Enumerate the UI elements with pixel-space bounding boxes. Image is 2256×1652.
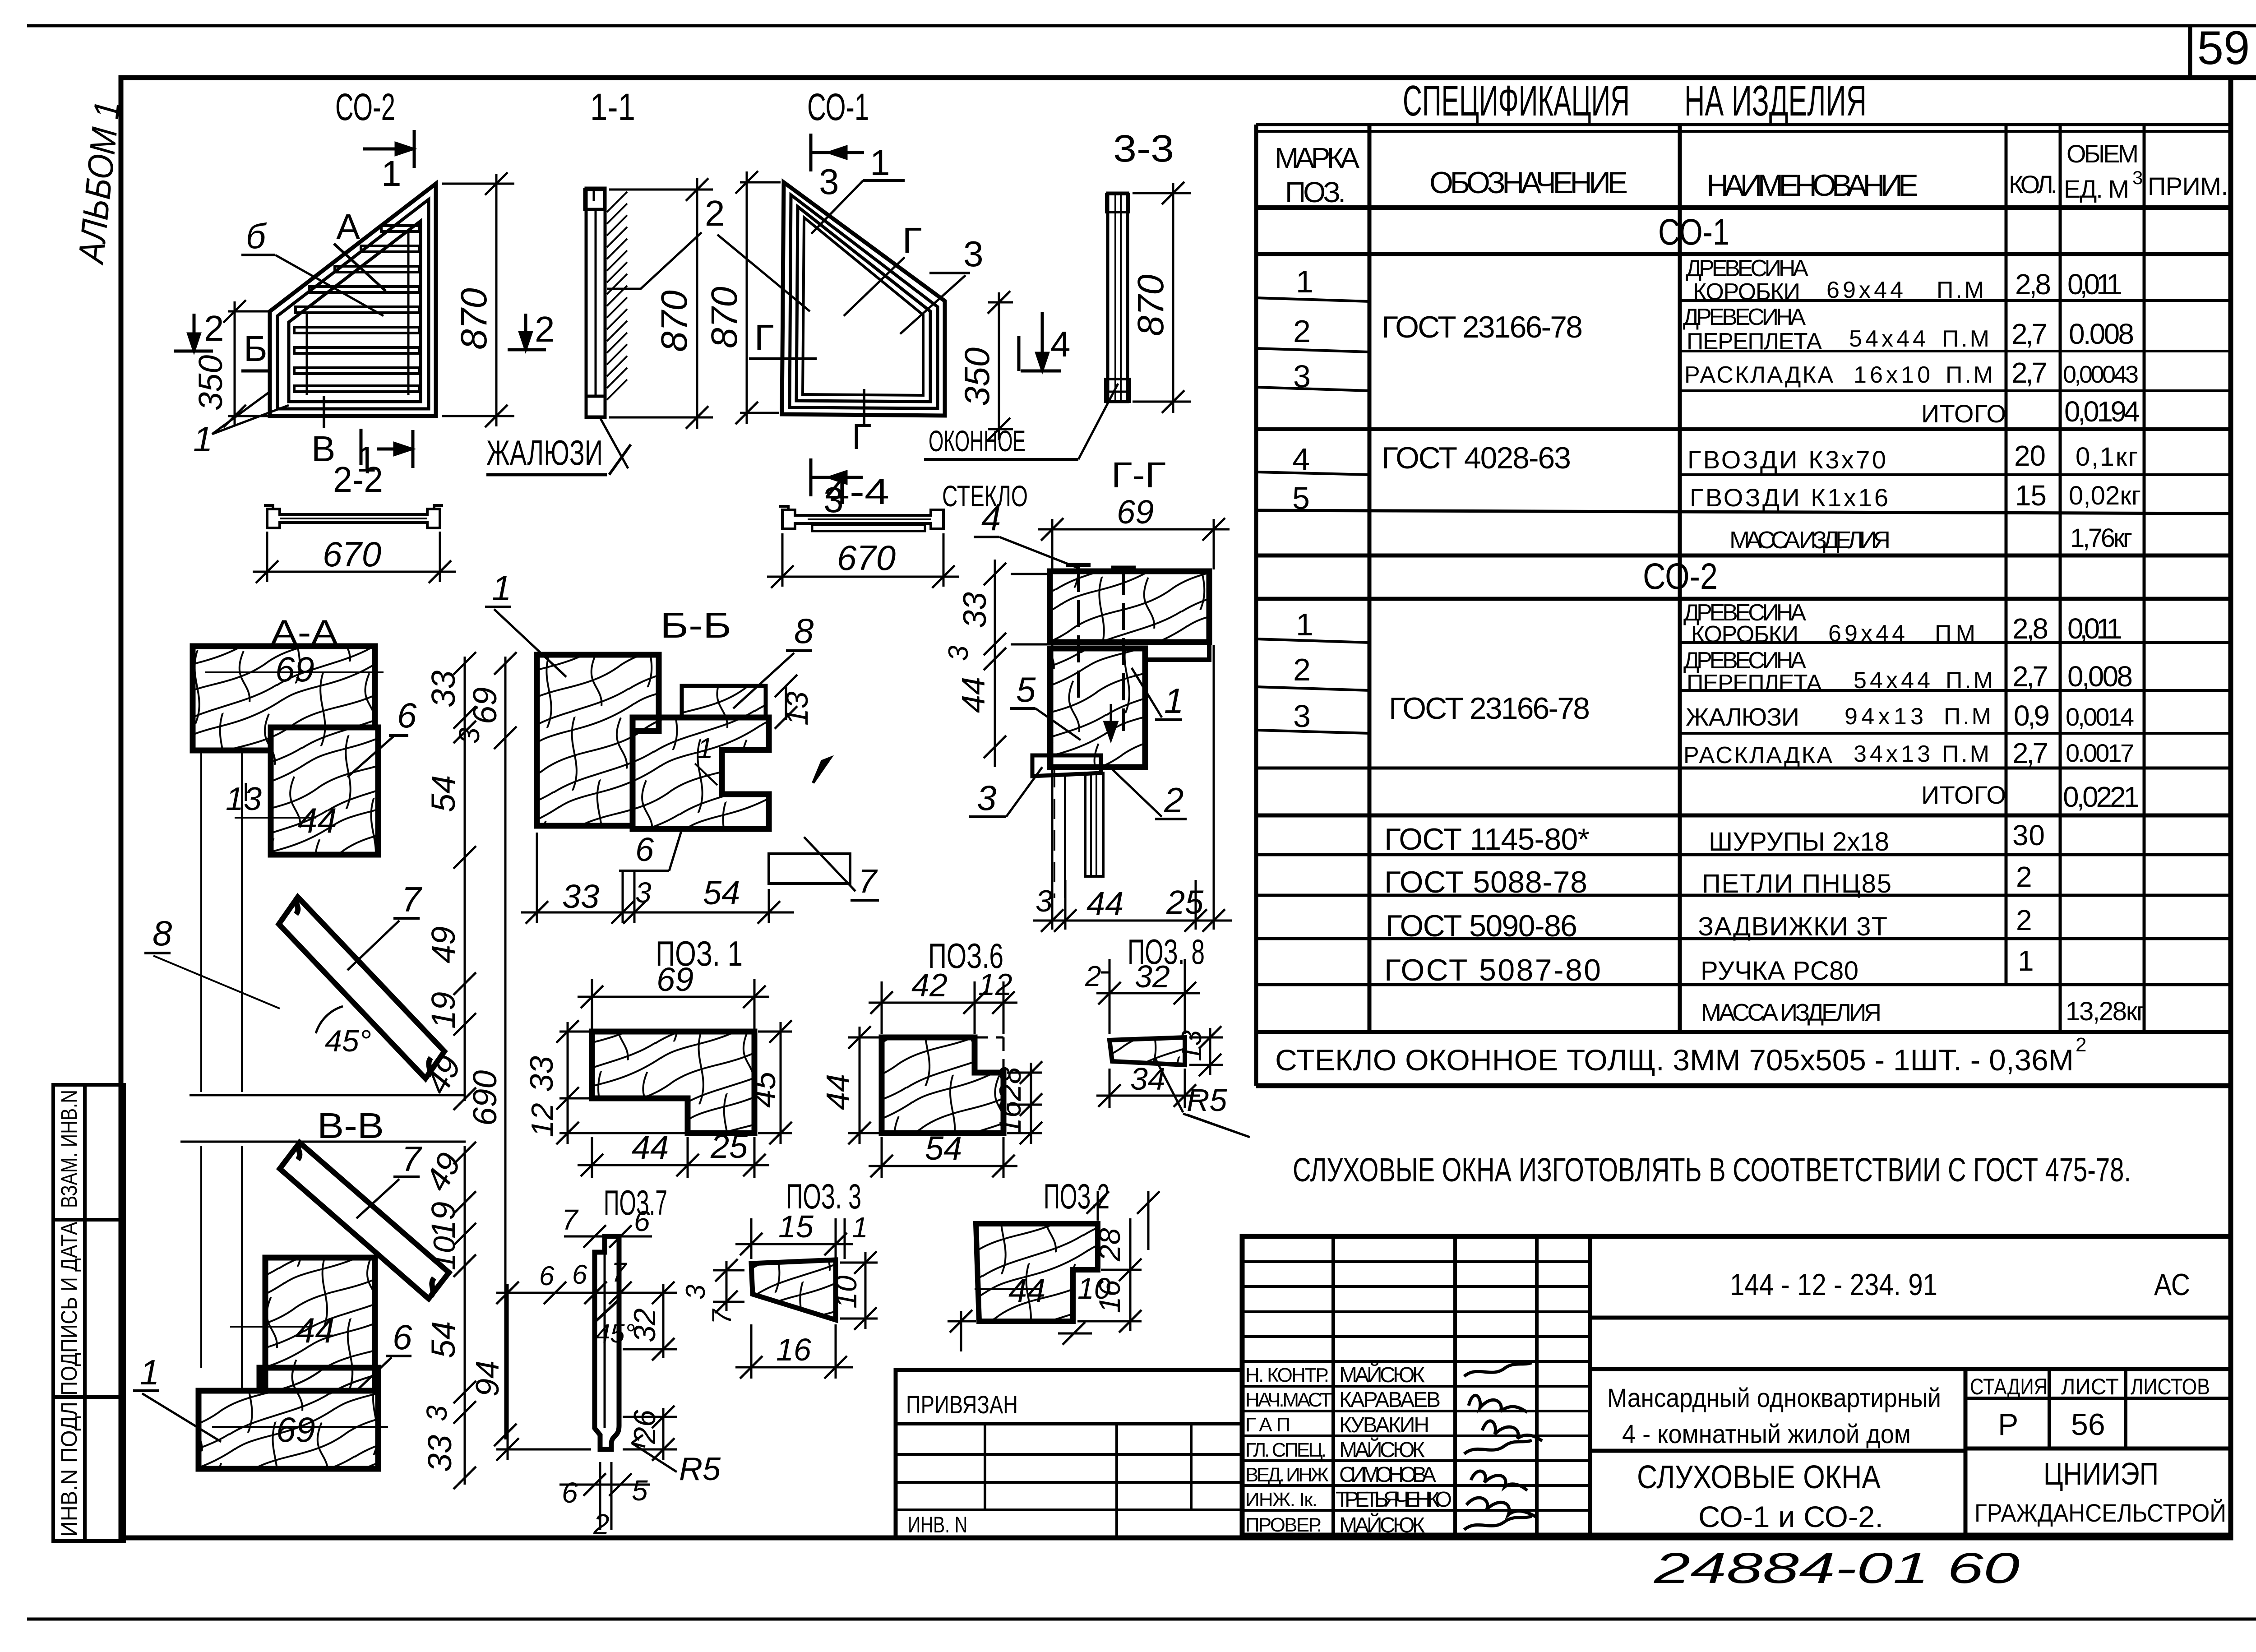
svg-text:ЕД. М: ЕД. М [2064,175,2129,203]
svg-text:16: 16 [776,1332,811,1367]
svg-text:МАЙСЮК: МАЙСЮК [1339,1362,1425,1387]
dim 870 right of 1-1 [609,178,713,429]
svg-text:1: 1 [193,419,213,459]
svg-text:16: 16 [993,1101,1027,1135]
svg-text:7: 7 [402,1139,422,1179]
ПОЗ.7 dim 26 [623,1406,677,1461]
svg-text:НА ИЗДЕЛИЯ: НА ИЗДЕЛИЯ [1684,77,1867,125]
svg-text:28: 28 [993,1067,1027,1101]
svg-text:1-1: 1-1 [590,86,635,128]
svg-text:10: 10 [829,1275,863,1309]
svg-text:4-4: 4-4 [825,472,889,512]
window СО-1 inner frame 1 [790,195,938,408]
svg-text:5: 5 [1292,481,1310,516]
svg-text:Н. КОНТР.: Н. КОНТР. [1245,1364,1329,1386]
ПОЗ.7 upper-left dims 6 6 7 [532,1282,654,1304]
svg-text:0,011: 0,011 [2067,612,2122,645]
svg-text:ВЕД. ИНЖ: ВЕД. ИНЖ [1245,1464,1329,1486]
svg-text:30: 30 [2012,819,2045,851]
svg-text:1: 1 [697,732,713,764]
svg-text:ЛИСТ: ЛИСТ [2061,1374,2119,1399]
1-1 bottom clamp [586,396,605,417]
3-3 jamb strip [1108,193,1128,402]
svg-text:Г: Г [852,416,871,457]
dim 870 left of СО-1 [735,171,781,424]
svg-text:Б: Б [244,329,268,369]
ПОЗ.7 profile board [595,1236,619,1449]
frame top extension to page edge [2231,75,2256,80]
svg-text:ГВОЗДИ К1x16: ГВОЗДИ К1x16 [1690,483,1888,512]
svg-text:ПЕТЛИ ПНЦ85: ПЕТЛИ ПНЦ85 [1702,869,1891,898]
louver slats [294,226,420,395]
svg-text:ЦНИИЭП: ЦНИИЭП [2043,1456,2159,1491]
svg-text:КОРОБКИ: КОРОБКИ [1693,279,1800,305]
svg-text:П.М: П.М [1946,362,1993,388]
window СО-2 inner frame 1 [277,199,429,409]
table top double line [1256,123,2231,126]
sheet number box 59 [2190,22,2250,79]
В-В break lines [190,1094,466,1097]
section mark 1 (bottom) [361,429,413,468]
svg-text:ДРЕВЕСИНА: ДРЕВЕСИНА [1683,304,1806,330]
svg-text:44: 44 [1008,1272,1045,1309]
ПОЗ.2 block [976,1224,1098,1321]
svg-text:ГОСТ 1145-80*: ГОСТ 1145-80* [1384,822,1590,856]
svg-text:ПЕРЕПЛЕТА: ПЕРЕПЛЕТА [1687,670,1822,696]
svg-text:0,02кг: 0,02кг [2069,481,2141,510]
svg-text:1,76кг: 1,76кг [2070,523,2132,553]
svg-text:45: 45 [746,1071,782,1108]
svg-text:44: 44 [296,1310,335,1350]
ПОЗ.6 left dim 44 [848,1026,879,1144]
svg-text:1: 1 [2018,944,2034,977]
svg-text:0.008: 0.008 [2069,318,2134,350]
svg-text:3: 3 [963,234,984,274]
Б-Б small ledge right [769,854,850,884]
svg-text:33: 33 [421,1435,458,1472]
ПОЗ.1 right dim 45 [758,1020,792,1144]
svg-text:СО-1: СО-1 [807,86,869,128]
svg-text:ЛИСТОВ: ЛИСТОВ [2131,1374,2210,1399]
svg-text:12: 12 [525,1103,559,1137]
svg-text:R5: R5 [1187,1083,1228,1118]
svg-text:13: 13 [1176,1030,1207,1061]
svg-text:КОЛ.: КОЛ. [2009,170,2057,199]
table header texts [1275,139,2228,208]
ПОЗ.2 top dim ticks [1086,1191,1160,1250]
svg-text:0,9: 0,9 [2014,699,2050,732]
svg-text:7: 7 [562,1203,579,1236]
svg-text:870: 870 [1130,274,1171,336]
dim 69 / 690 column [494,652,517,1446]
svg-text:19: 19 [425,992,462,1029]
Г-Г bolts [1066,565,1136,731]
window СО-1 inner frame 3 [803,217,923,395]
svg-text:2: 2 [2016,861,2032,893]
svg-text:ГОСТ 5090-86: ГОСТ 5090-86 [1386,909,1577,943]
svg-text:0,008: 0,008 [2067,660,2133,693]
signature rows labels [1245,1364,1332,1536]
CO-1 rows [1292,255,2141,554]
svg-text:6: 6 [539,1261,555,1291]
svg-text:8: 8 [153,913,172,953]
svg-text:0,0194: 0,0194 [2064,395,2140,428]
right part lines [1590,1316,2231,1320]
svg-text:25: 25 [1166,884,1204,921]
ПРИВЯЗАН block [896,1370,1242,1538]
svg-text:24884-01 60: 24884-01 60 [1653,1544,2020,1592]
svg-text:2: 2 [1085,960,1101,992]
section mark 3 (top) [811,134,864,171]
svg-text:2,7: 2,7 [2012,737,2048,769]
А-А block 44 (переплет) [271,727,378,855]
svg-text:69: 69 [276,1410,315,1449]
svg-text:4: 4 [1050,324,1071,364]
svg-text:6: 6 [397,695,417,735]
label 2 leader to СО-1 [717,235,810,311]
svg-text:1: 1 [1164,681,1183,721]
window СО-2 inner frame 2 [289,221,421,402]
svg-text:КУВАКИН: КУВАКИН [1339,1413,1429,1437]
svg-text:350: 350 [957,347,997,406]
svg-text:П.М: П.М [1937,277,1984,303]
svg-text:ОБIЕМ: ОБIЕМ [2066,139,2139,168]
svg-text:ИТОГО: ИТОГО [1921,399,2006,428]
svg-text:ПОДПИСЬ И ДАТА: ПОДПИСЬ И ДАТА [56,1222,82,1396]
dim 69 above Г-Г [1038,518,1230,569]
svg-text:13: 13 [780,691,814,726]
Г-Г top block (коробка) [1050,571,1209,642]
ПОЗ.2 bottom-left dim marks [948,1310,1092,1351]
svg-text:2,8: 2,8 [2015,268,2051,301]
svg-text:7: 7 [611,1257,628,1287]
svg-text:54: 54 [425,1321,462,1358]
svg-text:ОБОЗНАЧЕНИЕ: ОБОЗНАЧЕНИЕ [1429,166,1628,200]
2-2 profile body [267,509,440,528]
СО-2 header bottom [1256,597,2231,601]
svg-text:6: 6 [635,831,654,868]
svg-text:2: 2 [1293,652,1311,687]
svg-text:7: 7 [707,1308,737,1324]
section mark 1 (top) [363,130,414,168]
svg-text:СО-1 и СО-2.: СО-1 и СО-2. [1698,1500,1883,1533]
dim 350 left of СО-2 [223,300,268,427]
svg-text:ВЗАМ. ИНВ.N: ВЗАМ. ИНВ.N [56,1090,82,1208]
svg-text:Г-Г: Г-Г [1111,455,1166,495]
Г-Г middle block (переплет) [1050,648,1145,767]
ПОЗ.1 block [592,1032,754,1133]
ПОЗ.3 left dims 3 7 [713,1259,744,1313]
svg-text:ПОЗ.2: ПОЗ.2 [1044,1176,1110,1216]
svg-text:РАСКЛАДКА: РАСКЛАДКА [1684,362,1833,388]
ПОЗ.6 block [882,1037,1003,1133]
svg-text:ТРЕТЬЯЧЕНКО: ТРЕТЬЯЧЕНКО [1336,1488,1452,1512]
svg-text:5: 5 [632,1474,648,1507]
svg-text:3: 3 [421,1405,453,1421]
Г-Г sill wedge left [1032,755,1101,776]
svg-text:П.М: П.М [1942,741,1989,767]
2-2 end hooks [264,505,443,510]
В-В dim chain [453,1142,476,1489]
svg-text:28: 28 [1093,1228,1126,1262]
ПОЗ.1 left dims 33 12 [556,1020,685,1144]
svg-text:МАЙСЮК: МАЙСЮК [1339,1513,1425,1537]
svg-text:ГОСТ 5088-78: ГОСТ 5088-78 [1384,865,1587,899]
ПОЗ.3 bottom dim 16 [735,1324,853,1379]
svg-text:ГОСТ 4028-63: ГОСТ 4028-63 [1382,441,1571,475]
svg-text:ПРИМ.: ПРИМ. [2148,172,2228,200]
svg-text:Г: Г [754,317,774,357]
svg-text:ГЛ. СПЕЦ.: ГЛ. СПЕЦ. [1245,1439,1327,1461]
ПОЗ.8 bar [1110,1037,1185,1065]
Г-Г step right [1145,642,1209,660]
svg-text:33: 33 [957,592,993,628]
svg-text:А: А [336,207,361,247]
svg-text:1: 1 [1296,607,1313,642]
ПОЗ.7 dim 94 [496,1282,591,1461]
масса row bottom [1256,554,2231,558]
svg-text:РУЧКА РС80: РУЧКА РС80 [1701,956,1858,986]
svg-text:АС: АС [2154,1268,2190,1302]
svg-text:3: 3 [680,1285,711,1300]
svg-text:3: 3 [2132,167,2143,188]
svg-text:ИНВ. N: ИНВ. N [908,1512,967,1537]
svg-text:94x13: 94x13 [1845,703,1923,730]
svg-text:В-В: В-В [317,1106,384,1146]
svg-text:54x44: 54x44 [1854,667,1930,694]
svg-text:Г: Г [902,220,922,260]
svg-text:2,7: 2,7 [2012,660,2048,693]
table bottom [1256,1083,2231,1088]
svg-text:СПЕЦИФИКАЦИЯ: СПЕЦИФИКАЦИЯ [1403,77,1630,125]
dim 13 (Б-Б) [775,675,797,729]
svg-text:ГАП: ГАП [1245,1414,1290,1436]
svg-text:ГРАЖДАНСЕЛЬСТРОЙ: ГРАЖДАНСЕЛЬСТРОЙ [1974,1499,2226,1527]
left sidebar boxes [53,1085,124,1541]
svg-text:15: 15 [2015,479,2047,512]
svg-text:МАРКА: МАРКА [1275,142,1359,174]
svg-text:0,1кг: 0,1кг [2076,442,2138,472]
ПОЗ.1 dim 69 [578,979,769,1029]
svg-text:870: 870 [654,290,695,352]
svg-text:ГОСТ 23166-78: ГОСТ 23166-78 [1389,691,1590,726]
svg-text:69x44: 69x44 [1826,277,1903,303]
svg-text:2,8: 2,8 [2012,612,2048,645]
svg-text:РАСКЛАДКА: РАСКЛАДКА [1683,742,1832,768]
1-1 hatching [607,192,627,400]
итого-2 bottom [1256,814,2231,818]
svg-text:2-2: 2-2 [333,459,383,500]
svg-text:3: 3 [977,778,996,818]
svg-text:Мансардный одноквартирный: Мансардный одноквартирный [1607,1384,1941,1413]
svg-text:69: 69 [1117,493,1154,531]
svg-text:10: 10 [427,1236,462,1270]
window СО-1 inner frame 2 [796,207,930,402]
svg-text:54: 54 [425,775,462,812]
svg-text:25: 25 [710,1128,748,1165]
А-А diagonal jamb piece 7 [279,897,444,1078]
svg-text:33: 33 [524,1056,560,1092]
svg-text:44: 44 [298,801,337,840]
svg-text:54: 54 [925,1129,962,1167]
svg-text:2: 2 [2016,904,2032,936]
svg-text:ПОЗ.: ПОЗ. [1285,176,1346,208]
svg-text:0,011: 0,011 [2067,268,2122,301]
svg-text:Р: Р [1998,1407,2018,1442]
svg-text:0,0014: 0,0014 [2066,703,2134,731]
dim 870 right of СО-2 [442,172,514,427]
section mark 4 (right of СО-1) [1019,312,1061,371]
svg-text:2: 2 [2076,1034,2086,1056]
4-4 profile body [782,510,943,529]
svg-text:20: 20 [2014,440,2046,472]
3-3 top clamp [1106,194,1129,212]
svg-text:6: 6 [393,1317,412,1357]
Г-Г glazing strip [1085,773,1103,876]
svg-text:3: 3 [635,876,652,909]
svg-text:НАЧ.МАСТ: НАЧ.МАСТ [1245,1389,1332,1411]
svg-text:ГОСТ 23166-78: ГОСТ 23166-78 [1382,310,1583,344]
svg-text:2,7: 2,7 [2011,318,2048,350]
svg-text:ЗАДВИЖКИ 3Т: ЗАДВИЖКИ 3Т [1698,912,1887,941]
svg-text:2,7: 2,7 [2011,356,2048,389]
ПОЗ.7 dim 32 [623,1282,677,1360]
section mark 3 (bottom) [811,458,863,496]
3-3 bottom clamp [1105,379,1130,402]
ПОЗ.6 bottom dim 54 [869,1137,1017,1178]
svg-text:3: 3 [1293,699,1311,734]
page bottom edge line [27,1618,2256,1621]
svg-text:33: 33 [425,671,462,708]
svg-text:32: 32 [1135,959,1170,994]
CO-1 row bottom [1256,252,2231,256]
svg-text:ШУРУПЫ 2x18: ШУРУПЫ 2x18 [1709,827,1889,856]
svg-text:44: 44 [632,1129,669,1166]
svg-text:32: 32 [628,1308,662,1342]
dim 670 under 2-2 [253,532,456,583]
В-В block 69 [199,1368,378,1469]
svg-text:670: 670 [837,538,896,578]
svg-text:СО-2: СО-2 [1643,556,1718,597]
svg-text:3: 3 [819,162,839,202]
svg-text:4: 4 [981,498,1001,538]
svg-text:3: 3 [943,646,974,661]
svg-text:15: 15 [778,1209,814,1244]
rows СО-2 [1256,639,1369,643]
svg-text:2: 2 [1293,314,1311,349]
svg-text:49: 49 [425,926,462,963]
svg-text:П.М: П.М [1944,703,1991,730]
ПОЗ.8 bottom dim 34 [1096,1069,1200,1108]
svg-text:СЛУХОВЫЕ ОКНА: СЛУХОВЫЕ ОКНА [1637,1459,1881,1495]
svg-text:56: 56 [2071,1407,2105,1442]
ПОЗ.2 right dims 28 16 [1077,1218,1142,1333]
svg-text:1: 1 [1296,264,1313,299]
svg-text:54: 54 [703,874,740,912]
svg-text:ГВОЗДИ К3x70: ГВОЗДИ К3x70 [1687,445,1886,474]
svg-text:4: 4 [1292,442,1310,477]
Г-Г left dim chain 33 3 44 [984,560,1047,767]
svg-text:ИНЖ. Iк.: ИНЖ. Iк. [1245,1489,1318,1511]
svg-text:СТЕКЛО ОКОННОЕ ТОЛЩ. 3ММ 705x: СТЕКЛО ОКОННОЕ ТОЛЩ. 3ММ 705x505 - 1ШТ. … [1275,1043,2074,1077]
outer [1242,1236,2231,1535]
svg-text:7: 7 [402,879,422,919]
svg-text:350: 350 [192,355,229,411]
svg-text:ИТОГО: ИТОГО [1921,781,2006,809]
Б-Б bottom dims 33 3 54 [521,833,794,924]
svg-text:2: 2 [705,193,725,233]
svg-text:870: 870 [453,288,495,350]
Г-Г bottom dim 3 44 25 [1033,645,1232,932]
ПОЗ.1 bottom dims 44 25 [578,1137,769,1178]
ПОЗ.7 45° chamfer line [595,1300,619,1322]
В-В block 44 [265,1258,375,1391]
svg-text:П.М: П.М [1946,667,1993,694]
svg-text:1: 1 [381,153,402,194]
svg-text:33: 33 [562,878,599,915]
row lines CO-1 [1256,298,1369,301]
window СО-2 outer frame [270,184,436,416]
svg-text:8: 8 [794,611,814,651]
svg-text:3: 3 [453,727,485,744]
dim chain column (А-А right) [453,652,476,1110]
svg-text:4 - комнатный жилой дом: 4 - комнатный жилой дом [1622,1420,1911,1449]
ПОЗ.8 dims 2 32 [1096,959,1200,1034]
svg-text:13: 13 [226,781,262,817]
svg-text:16x10: 16x10 [1854,362,1930,388]
svg-text:СЛУХОВЫЕ ОКНА ИЗГОТОВЛЯТЬ В: СЛУХОВЫЕ ОКНА ИЗГОТОВЛЯТЬ В СООТВЕТСТВИИ… [1293,1151,2131,1189]
svg-text:П.М: П.М [1942,326,1989,352]
svg-text:ИНВ.N ПОДЛ: ИНВ.N ПОДЛ [56,1402,82,1537]
ПОЗ.3 wedge block [751,1260,836,1320]
svg-text:870: 870 [704,287,745,348]
svg-text:ЖАЛЮЗИ: ЖАЛЮЗИ [1686,703,1799,731]
window СО-1 outer frame [782,182,945,416]
dim 870 right of 3-3 [1133,182,1191,413]
масса-2 bottom [1256,1030,2231,1034]
svg-text:0,0221: 0,0221 [2063,781,2140,813]
section mark 2 (right) [508,314,546,350]
svg-text:5: 5 [1016,670,1036,709]
svg-text:16: 16 [1093,1280,1126,1313]
svg-text:ПРИВЯЗАН: ПРИВЯЗАН [906,1390,1018,1419]
ПОЗ.8 right dim 13 [1189,1026,1223,1076]
svg-text:1: 1 [140,1352,159,1392]
svg-text:3: 3 [1036,884,1053,918]
svg-text:19: 19 [425,1202,462,1239]
svg-text:6: 6 [634,1205,650,1237]
header bottom [1256,205,2231,210]
В-В diagonal jamb piece 7 [280,1143,449,1299]
svg-text:В: В [311,429,335,469]
svg-text:СИМОНОВА: СИМОНОВА [1339,1463,1436,1487]
ПОЗ.3 right dim 10 [840,1251,878,1330]
Б-Б right C block [633,717,769,829]
svg-text:2: 2 [204,308,224,348]
svg-text:ДРЕВЕСИНА: ДРЕВЕСИНА [1686,255,1808,282]
svg-text:69: 69 [466,687,504,724]
Г-Г arrow down [1105,704,1117,740]
ПОЗ.6 right dims 28 16 [1007,1061,1042,1144]
svg-text:94: 94 [470,1360,506,1397]
svg-text:ПРОВЕР.: ПРОВЕР. [1245,1514,1322,1536]
svg-text:ГОСТ 5087-80: ГОСТ 5087-80 [1384,953,1601,987]
svg-text:670: 670 [323,534,381,574]
svg-text:6: 6 [562,1476,578,1509]
svg-text:69: 69 [656,961,693,998]
ПОЗ.7 bottom dims 6 5 2 [559,1462,650,1530]
ПОЗ.3 dims 15 1 [735,1218,853,1259]
